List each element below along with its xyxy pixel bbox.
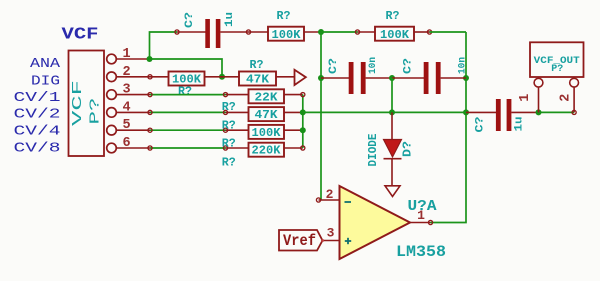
svg-text:R?: R? [250, 59, 264, 72]
wire net rail to right [303, 111, 466, 113]
svg-text:LM358: LM358 [396, 243, 446, 261]
wire net row6 [150, 147, 226, 149]
resistor R? 47K row4 value [255, 108, 279, 122]
junction inverting caps row [318, 75, 324, 81]
svg-text:3: 3 [327, 226, 335, 241]
diode D? top pin [391, 112, 393, 139]
diode D? body [384, 140, 402, 159]
capacitor C? 1u right label [475, 117, 487, 133]
resistor R? 22K label [222, 101, 236, 114]
ground symbol [385, 186, 400, 197]
svg-text:Vref: Vref [283, 232, 316, 250]
op-amp plus sign [345, 238, 351, 244]
capacitor C? 1u top plates [205, 19, 220, 48]
diode D? bottom pin [391, 159, 393, 186]
svg-text:CV/4: CV/4 [14, 124, 61, 140]
svg-text:47K: 47K [255, 108, 279, 122]
resistor R? 47K label [250, 59, 264, 72]
resistor R? 220K row6 pins [226, 147, 303, 149]
wire net output to jack pin2 [539, 111, 575, 113]
resistor R? 100K row2 value [172, 73, 202, 87]
junction right rail output row [463, 109, 469, 115]
resistor R? 100K top2 left pin [358, 31, 376, 33]
svg-text:R?: R? [386, 10, 400, 23]
resistor R? row2 label [178, 85, 192, 98]
wire net inverting input vertical [320, 32, 322, 200]
svg-text:DIODE: DIODE [367, 133, 380, 166]
capacitor C? 10n first plates [349, 62, 366, 94]
connector P? VCF body [69, 51, 105, 157]
capacitor C? 10n first right pin [366, 77, 392, 79]
diode value DIODE [367, 133, 380, 166]
connector pin 2 circle [107, 72, 117, 82]
resistor R? 47K row2 value [246, 73, 270, 87]
capacitor C? top pin-end circle right [246, 30, 250, 34]
connector pin wires rows 1-6 [117, 59, 150, 148]
pin number 4 [122, 100, 130, 115]
capacitor C? 1u top left pin [177, 31, 206, 33]
connector P? VCF OUT body [530, 42, 584, 77]
net label ANA [30, 56, 61, 72]
net label CV/8 [14, 141, 61, 157]
resistor R? top1 label [277, 10, 291, 23]
junction row2 mid [219, 74, 225, 80]
svg-text:P?: P? [551, 63, 563, 75]
svg-text:2: 2 [559, 94, 574, 102]
connector P? rotated refdes P? [88, 98, 104, 125]
capacitor C? 10n second label [403, 58, 415, 74]
svg-text:P?: P? [88, 98, 104, 125]
op-amp U?A body [340, 186, 411, 259]
capacitor C? 10n second left pin [392, 77, 424, 79]
resistor R? 100K row5 value [252, 126, 282, 140]
connector VCF OUT pin number 2 [559, 94, 574, 102]
op-amp value LM358 [396, 243, 446, 261]
svg-text:VCF: VCF [70, 80, 86, 126]
op-amp pin 3 wire [323, 240, 340, 242]
connector pin 6 circle [107, 143, 117, 153]
svg-text:R?: R? [277, 10, 291, 23]
svg-text:C?: C? [403, 58, 415, 74]
wire net row5 [150, 129, 226, 131]
resistor R? 100K top1 value [272, 28, 302, 42]
wire net ANA right and down to junction [150, 59, 223, 77]
resistor R? 47K row4 label [222, 120, 236, 133]
resistor R? 220K row6 value [252, 144, 282, 158]
capacitor C? 10n second right pin [441, 77, 466, 79]
svg-text:DIG: DIG [31, 74, 60, 90]
svg-text:CV/8: CV/8 [14, 141, 61, 157]
op-amp pin 2 end circle [316, 198, 320, 202]
wire net row4 [150, 111, 226, 113]
junction jack pin1 [536, 109, 542, 115]
connector VCF OUT pin 2 wire [573, 87, 575, 112]
resistor R? 100K row2 left pin [150, 76, 169, 78]
resistor R? 22K row3 pins [226, 94, 303, 96]
pin number 6 [122, 136, 130, 151]
capacitor C? 10n first value [367, 57, 379, 74]
capacitor C? 1u right value [514, 117, 526, 132]
wire net top right [430, 31, 467, 33]
capacitor C? 1u right plates [496, 99, 512, 131]
connector VCF OUT pin 1 circle [534, 78, 543, 87]
connector VCF OUT pin 1 wire [538, 87, 540, 112]
capacitor C? 10n second value [457, 57, 469, 74]
junction middle caps [389, 75, 395, 81]
op-amp minus sign [345, 201, 352, 203]
svg-text:100K: 100K [380, 28, 410, 42]
pin-end circles rows 3-6 left [148, 93, 228, 151]
resistor top2 pin-end circle [427, 30, 431, 34]
connector VCF OUT name [534, 55, 580, 67]
connector P? rotated name VCF [70, 80, 86, 126]
resistor R? 100K row5 pins [226, 129, 303, 131]
wire net summing rail vertical [302, 95, 304, 148]
op-amp pin number 2 [326, 187, 334, 202]
resistor 47K right pin to arrow [276, 76, 295, 78]
wire net top to R2 [321, 31, 358, 33]
svg-text:CV/2: CV/2 [14, 107, 61, 123]
wire net row3 [150, 94, 226, 96]
capacitor C? 10n first label [328, 58, 340, 74]
op-amp pin number 3 [327, 226, 335, 241]
op-amp output pin wire [410, 222, 431, 224]
svg-text:10n: 10n [457, 57, 469, 74]
pin-end circles rail ends [301, 93, 305, 151]
resistor row2 right pin [205, 76, 240, 78]
connector VCF OUT refdes P? [551, 63, 563, 75]
resistor R? 47K row2 box [239, 72, 276, 86]
resistor R? 220K label [222, 157, 236, 170]
resistor R? 100K row5 label [222, 138, 236, 151]
connector pin 3 circle [107, 90, 117, 100]
connector P? title VCF [62, 26, 99, 45]
resistor R? 100K top2 pin-end circle [355, 30, 359, 34]
capacitor C? 1u top right pin [220, 31, 268, 33]
wire net ANA up to C1 [150, 32, 178, 59]
op-amp refdes U?A [408, 198, 437, 215]
pin number 2 [122, 65, 130, 80]
resistor top1 right pin [304, 31, 321, 33]
resistor R? 100K top2 box [375, 27, 414, 41]
capacitor C? top label C? [184, 12, 196, 28]
pin number 5 [122, 118, 130, 133]
connector pin 5 circle [107, 125, 117, 135]
connector VCF OUT pin number 1 [518, 94, 533, 102]
junction rail row4 [300, 109, 306, 115]
resistor R? 100K top2 value [380, 28, 410, 42]
svg-text:C?: C? [328, 58, 340, 74]
capacitor C? top pin-end circle left [175, 30, 179, 34]
resistor R? 100K row2 box [169, 72, 205, 86]
connector pin 1 circle [107, 54, 117, 64]
sheet entry arrow [295, 70, 306, 85]
junction right rail caps row [463, 75, 469, 81]
junction rail row5 [300, 127, 306, 133]
resistor R? 100K top1 box [268, 27, 304, 41]
resistor R? 100K row5 box [249, 125, 285, 139]
diode label D? [402, 141, 415, 157]
svg-text:10n: 10n [367, 57, 379, 74]
pin number 3 [122, 83, 130, 98]
capacitor C? 1u right right pin [511, 111, 538, 113]
op-amp output pin-end circle [428, 220, 432, 224]
svg-text:U?A: U?A [408, 198, 437, 215]
svg-text:R?: R? [178, 85, 192, 98]
capacitor C? 10n first left pin [321, 77, 349, 79]
svg-text:100K: 100K [252, 126, 282, 140]
connector VCF OUT pin 2 circle [570, 78, 579, 87]
wire net caps mid down to rail [391, 78, 393, 112]
svg-text:1u: 1u [514, 117, 526, 132]
op-amp pin 2 wire [319, 199, 340, 201]
resistor R? 22K row3 box [249, 89, 285, 103]
Vref text [283, 232, 316, 250]
resistor top2 right pin [414, 31, 430, 33]
svg-text:220K: 220K [252, 144, 282, 158]
svg-text:C?: C? [184, 12, 196, 28]
net label CV/1 [14, 90, 61, 106]
pin-end circle jack pin2 [572, 110, 576, 114]
connector pin 4 circle [107, 108, 117, 118]
svg-text:1u: 1u [224, 12, 236, 27]
svg-text:ANA: ANA [30, 56, 61, 72]
svg-text:2: 2 [326, 187, 334, 202]
capacitor C? 10n second plates [424, 62, 441, 94]
capacitor C? 1u right left pin [466, 111, 496, 113]
svg-text:1: 1 [518, 94, 533, 102]
capacitor C? top value 1u [224, 12, 236, 27]
svg-text:100K: 100K [272, 28, 302, 42]
Vref flag [279, 230, 323, 251]
resistor R? 47K row4 pins [226, 111, 303, 113]
svg-text:C?: C? [475, 117, 487, 133]
svg-text:D?: D? [402, 141, 415, 157]
junction row1 [147, 56, 153, 62]
op-amp pin number 1 [417, 208, 425, 223]
net label CV/4 [14, 124, 61, 140]
resistor R? top2 label [386, 10, 400, 23]
resistor R? 100K row2 pin-end circle [148, 75, 152, 79]
junction rail diode node [389, 109, 395, 115]
svg-text:R?: R? [222, 157, 236, 170]
svg-text:CV/1: CV/1 [14, 90, 61, 106]
pin number 1 [122, 47, 130, 62]
resistor R? 22K row3 value [255, 90, 279, 104]
junction top feedback node [318, 29, 324, 35]
net label CV/2 [14, 107, 61, 123]
svg-text:VCF: VCF [62, 26, 99, 45]
svg-text:22K: 22K [255, 90, 279, 104]
Vref pin tip dot [321, 239, 324, 242]
wire net right vertical rail [431, 32, 467, 223]
net label DIG [31, 74, 60, 90]
svg-text:47K: 47K [246, 73, 270, 87]
resistor R? 220K row6 box [249, 143, 285, 157]
resistor R? 47K row4 box [249, 107, 285, 121]
